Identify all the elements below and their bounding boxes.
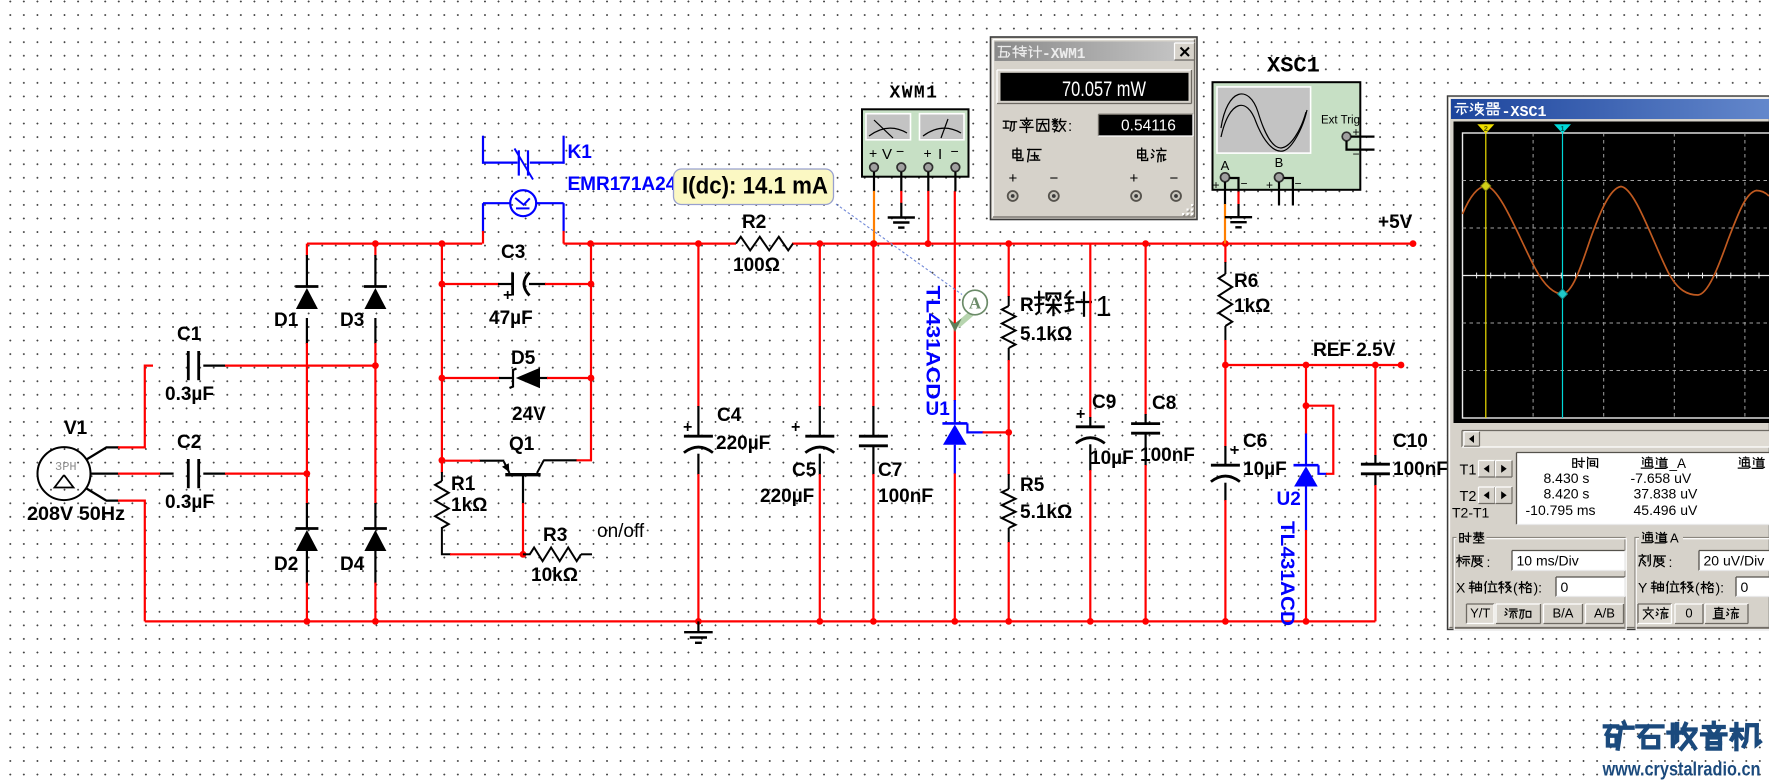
probe arrow (958, 313, 973, 326)
svg-text:C2: C2 (177, 432, 201, 453)
zener diode D5 24V (510, 369, 517, 389)
svg-text:C1: C1 (177, 324, 202, 345)
capacitor C10 100nF (1374, 365, 1376, 456)
oscilloscope waveform (1463, 186, 1769, 295)
diode D2 (295, 527, 318, 530)
probe circled A (963, 290, 988, 315)
capacitor C7 100nF (872, 244, 874, 407)
oscilloscope readout panel (1517, 453, 1769, 525)
wattmeter close button (1175, 43, 1195, 60)
svg-text:(: ( (1513, 580, 1518, 596)
svg-text:10kΩ: 10kΩ (531, 565, 578, 586)
svg-text:U2: U2 (1277, 489, 1301, 510)
svg-text:−: − (896, 143, 904, 159)
svg-text:A: A (1670, 531, 1679, 546)
resistor R1 1k (441, 460, 443, 473)
probe tooltip I(dc) (674, 169, 834, 205)
svg-text:-XWM1: -XWM1 (1042, 47, 1086, 63)
svg-text:220µF: 220µF (760, 486, 814, 507)
svg-text:D4: D4 (340, 554, 365, 575)
3-phase source V1 (38, 447, 91, 500)
svg-text:A: A (1221, 158, 1230, 173)
svg-text:R6: R6 (1234, 271, 1258, 292)
svg-text:C7: C7 (878, 460, 902, 481)
diode D1 (295, 285, 318, 288)
oscilloscope dialog window (1448, 96, 1769, 630)
svg-text:1kΩ: 1kΩ (1234, 296, 1270, 317)
resistor R4 5.1k (1008, 244, 1010, 297)
svg-text:C9: C9 (1092, 392, 1116, 413)
oscilloscope scrollbar (1462, 431, 1769, 448)
svg-text:8.420 s: 8.420 s (1544, 486, 1590, 502)
svg-text:1kΩ: 1kΩ (451, 495, 487, 516)
wire REF 2.5V rail (1225, 364, 1401, 366)
capacitor C1 0.3uF (187, 351, 190, 380)
resistor R5 5.1k (1008, 432, 1010, 475)
svg-text:0: 0 (1741, 579, 1749, 595)
shunt regulator U2 TL431ACD (1305, 365, 1307, 435)
wattmeter power display (997, 70, 1193, 105)
wire D1/D2 vertical branch (306, 244, 308, 256)
svg-text:8.430 s: 8.430 s (1544, 470, 1590, 486)
svg-text:10µF: 10µF (1243, 459, 1287, 480)
svg-text:C6: C6 (1243, 431, 1267, 452)
svg-text:+: + (1230, 442, 1239, 459)
svg-text:0.3µF: 0.3µF (165, 492, 214, 513)
wire XWM1 V+ to rail (orange) (873, 172, 875, 192)
svg-text:5.1kΩ: 5.1kΩ (1020, 324, 1072, 345)
oscilloscope screen (1454, 122, 1769, 424)
svg-text:+: + (1266, 178, 1273, 192)
wire XSC1 B stubs (1278, 182, 1280, 206)
oscilloscope timebase group (1453, 538, 1625, 629)
svg-text:T1: T1 (1460, 463, 1477, 479)
svg-text:+: + (1009, 170, 1018, 187)
svg-text:-10.795 ms: -10.795 ms (1526, 502, 1596, 518)
svg-text:V1: V1 (64, 418, 88, 439)
svg-text::: : (1487, 554, 1491, 570)
svg-text:+: + (1130, 170, 1139, 187)
resistor R2 100ohm (736, 237, 793, 251)
svg-text:C4: C4 (717, 405, 742, 426)
svg-text:45.496 uV: 45.496 uV (1634, 502, 1698, 518)
junction dots (372, 240, 379, 247)
svg-text:37.838 uV: 37.838 uV (1634, 486, 1698, 502)
svg-text:0.3µF: 0.3µF (165, 384, 214, 405)
svg-text:+: + (1213, 178, 1220, 192)
svg-text:Y: Y (1638, 580, 1648, 596)
ground at XWM1 (888, 216, 915, 218)
svg-text:−: − (1050, 170, 1059, 187)
svg-text:100Ω: 100Ω (733, 255, 780, 276)
svg-text:−: − (1353, 147, 1360, 161)
wire C2 to D1 cathode node (203, 473, 226, 475)
svg-text:10 ms/Div: 10 ms/Div (1517, 553, 1579, 569)
wattmeter dialog window (991, 37, 1198, 220)
oscilloscope channel A buttons (1638, 604, 1672, 624)
svg-text:TL431ACD: TL431ACD (1276, 521, 1297, 626)
svg-text::: : (1068, 118, 1072, 135)
svg-text:B: B (1275, 155, 1284, 170)
probe pointer line (836, 204, 962, 295)
oscilloscope dialog title bar (1451, 99, 1769, 119)
svg-text:K1: K1 (568, 142, 593, 163)
resistor R3 10k on/off (523, 553, 531, 555)
svg-text:):: ): (1534, 580, 1543, 596)
wire V1 middle output to C2 (91, 473, 120, 475)
svg-text:www.crystalradio.cn: www.crystalradio.cn (1602, 759, 1761, 781)
svg-text:D1: D1 (274, 310, 299, 331)
svg-text:10µF: 10µF (1090, 448, 1134, 469)
svg-text:20 uV/Div: 20 uV/Div (1704, 553, 1765, 569)
wire top +5V rail right segment (564, 243, 737, 245)
wattmeter resize grip (1192, 214, 1194, 216)
svg-text:+: + (683, 419, 692, 436)
svg-text:T2-T1: T2-T1 (1452, 505, 1490, 521)
svg-text:Q1: Q1 (509, 434, 535, 455)
ground symbol bottom center (697, 621, 699, 632)
svg-text:Y/T: Y/T (1470, 606, 1490, 621)
svg-text:V: V (882, 146, 892, 163)
wire D5 row (442, 377, 500, 379)
wire XWM1 V- to ground (900, 172, 902, 192)
capacitor C4 220uF (697, 244, 699, 407)
wire XWM1 I+ to rail (927, 172, 929, 192)
oscilloscope timebase buttons (1467, 604, 1495, 624)
wire right branch x=591 (C3/D5 box right to Q1 collector) (576, 244, 591, 461)
wattmeter voltage/current labels (1013, 150, 1021, 158)
svg-text:T2: T2 (1460, 489, 1477, 505)
svg-text:U1: U1 (926, 399, 951, 420)
svg-text:D3: D3 (340, 310, 364, 331)
probe label 探针1 (1036, 292, 1039, 314)
svg-text:B/A: B/A (1553, 606, 1574, 621)
svg-text:_A: _A (1669, 456, 1687, 471)
svg-text:−: − (951, 143, 959, 159)
svg-text:REF 2.5V: REF 2.5V (1313, 340, 1396, 361)
svg-text:R1: R1 (451, 474, 476, 495)
wattmeter terminals (1008, 191, 1018, 201)
svg-text:100nF: 100nF (1140, 445, 1195, 466)
capacitor C3 47uF (511, 273, 514, 296)
wire bottom ground rail (145, 620, 1376, 622)
svg-text:−: − (1295, 177, 1302, 191)
shunt regulator U1 TL431ACD (954, 191, 956, 401)
svg-text:R2: R2 (742, 212, 766, 233)
svg-text:A/B: A/B (1594, 606, 1615, 621)
svg-text:+5V: +5V (1378, 212, 1413, 233)
svg-text:1: 1 (1096, 291, 1112, 323)
svg-text:-XSC1: -XSC1 (1502, 104, 1547, 121)
svg-text:+: + (503, 287, 512, 304)
wire C3 row (442, 283, 499, 285)
diode D3 (364, 285, 387, 288)
svg-text:−: − (1170, 170, 1179, 187)
capacitor C6 10uF (1224, 365, 1226, 447)
wire C1 to D3 anode node (203, 365, 226, 367)
svg-text:EMR171A24: EMR171A24 (568, 174, 677, 195)
svg-text:100nF: 100nF (1393, 459, 1448, 480)
svg-text:+: + (791, 419, 800, 436)
wire V1 bottom output to bottom rail (87, 489, 120, 501)
svg-text:D2: D2 (274, 554, 298, 575)
svg-text:100nF: 100nF (878, 486, 933, 507)
svg-text:+: + (1076, 406, 1085, 423)
svg-text:5.1kΩ: 5.1kΩ (1020, 502, 1072, 523)
wattmeter dialog title (998, 46, 1010, 48)
ground at XSC1 (1225, 216, 1252, 218)
svg-text:X: X (1456, 580, 1466, 596)
capacitor C5 220uF (819, 244, 821, 407)
wire XSC1 A- to ground (1230, 178, 1239, 193)
svg-text:70.057 mW: 70.057 mW (1062, 78, 1146, 101)
svg-text:(: ( (1695, 580, 1700, 596)
svg-text:I(dc): 14.1 mA: I(dc): 14.1 mA (682, 173, 828, 200)
svg-text:):: ): (1716, 580, 1725, 596)
wire XWM1 I- down to U1 (954, 172, 956, 192)
oscilloscope channel A group (1635, 538, 1769, 629)
resistor R6 1k (1224, 244, 1226, 263)
svg-text:C10: C10 (1393, 431, 1428, 452)
relay K1 contact (482, 136, 484, 164)
svg-text:TL431ACD: TL431ACD (922, 286, 943, 400)
svg-text:A: A (969, 294, 982, 313)
svg-text:2: 2 (1484, 124, 1488, 133)
svg-text:3PH: 3PH (55, 460, 77, 474)
capacitor C9 10uF (1089, 244, 1091, 418)
svg-text:208V 50Hz: 208V 50Hz (27, 504, 125, 525)
svg-text:XSC1: XSC1 (1267, 54, 1320, 79)
svg-text:R5: R5 (1020, 475, 1045, 496)
wattmeter power factor row (1003, 120, 1008, 122)
logo crystalradio (1605, 724, 1617, 728)
capacitor C2 0.3uF (187, 459, 190, 488)
svg-text:+: + (869, 145, 877, 161)
svg-text:R: R (1020, 295, 1034, 316)
svg-text:0.54116: 0.54116 (1121, 118, 1176, 135)
svg-text:220µF: 220µF (716, 433, 770, 454)
wire XSC1 channel A to rail (orange) (1224, 182, 1226, 205)
svg-text:-7.658 uV: -7.658 uV (1631, 470, 1692, 486)
wire D3/D4 vertical branch (374, 244, 376, 256)
svg-text:47µF: 47µF (489, 308, 533, 329)
capacitor C8 100nF (1144, 244, 1146, 415)
svg-text:24V: 24V (512, 404, 546, 425)
diode D4 (364, 527, 387, 530)
wire top +5V rail left segment (307, 243, 482, 245)
svg-text:0: 0 (1685, 606, 1692, 621)
svg-text:C3: C3 (501, 242, 525, 263)
svg-text:D5: D5 (511, 348, 536, 369)
oscilloscope cursor T1 cyan (1562, 133, 1564, 418)
oscilloscope cursor T2 yellow (1485, 133, 1487, 418)
wire V1 top output to C1 (87, 447, 120, 459)
svg-text:I: I (938, 146, 942, 163)
svg-text:0: 0 (1561, 579, 1569, 595)
transistor Q1 PNP (505, 473, 540, 476)
svg-text::: : (1669, 554, 1673, 570)
svg-text:−: − (1241, 177, 1248, 191)
relay K1 coil (510, 190, 536, 216)
svg-text:C5: C5 (792, 460, 817, 481)
svg-text:1: 1 (1560, 124, 1564, 133)
svg-text:XWM1: XWM1 (890, 84, 939, 104)
svg-text:on/off: on/off (597, 521, 645, 542)
wire left branch x=442 (C3/D5 box left, R1) (441, 244, 443, 461)
svg-text:+: + (924, 145, 932, 161)
svg-text:C8: C8 (1152, 393, 1176, 414)
svg-text:R3: R3 (543, 525, 567, 546)
